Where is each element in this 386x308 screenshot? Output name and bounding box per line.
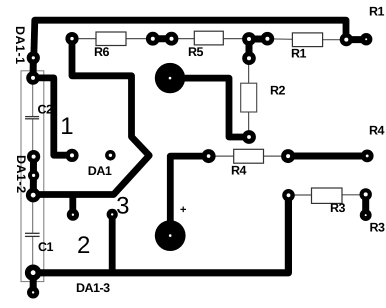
wire pin pads junction bar <box>30 157 37 196</box>
svg-text:DA1-1: DA1-1 <box>13 26 27 65</box>
wire pads junction bar <box>346 36 366 43</box>
pad P19 <box>27 286 39 298</box>
svg-text:R1: R1 <box>369 5 385 19</box>
pad P23 <box>202 149 216 163</box>
wire pad to R6 <box>72 38 96 40</box>
wire capacitor lead C1 bottom <box>32 237 34 273</box>
resistor R1 <box>292 33 322 47</box>
pad P21 <box>360 188 372 200</box>
pad P13 <box>28 170 39 181</box>
wire bottom ground bus <box>33 195 288 272</box>
pad P18 <box>25 265 41 281</box>
svg-text:C1: C1 <box>38 240 54 254</box>
pad P9 <box>27 51 40 64</box>
wire from pin 2 down to pad <box>33 78 72 155</box>
svg-text:DA1-3: DA1-3 <box>76 281 110 295</box>
wire pad junction bar <box>30 58 37 78</box>
pad P14 <box>26 188 41 203</box>
capacitor electrolytic big disc bottom <box>155 220 186 251</box>
pad P15 <box>67 209 79 221</box>
wire electrolytic to R2 pad <box>170 78 249 137</box>
wire chevron trace from pad to output <box>33 45 149 195</box>
pad P25 <box>361 150 374 163</box>
pad P4 <box>242 32 256 46</box>
svg-text:R3: R3 <box>370 221 386 235</box>
resistor R4 <box>234 149 264 163</box>
wire pads junction bar vertical <box>246 39 253 58</box>
pad P20 <box>282 189 295 202</box>
pad P8 <box>360 33 372 45</box>
resistor R6 <box>96 32 126 46</box>
resistor R3 <box>312 188 343 203</box>
wire pad to R1 <box>267 38 292 41</box>
wire capacitor lead C2 bottom to C1 <box>32 120 34 233</box>
wire pad to R5 <box>172 38 195 40</box>
wire pad down to ground bus <box>109 214 116 273</box>
svg-text:R4: R4 <box>369 124 385 138</box>
wire R4 to output long bar <box>288 153 367 160</box>
capacitor C2 <box>25 117 39 119</box>
pad P12 <box>27 150 40 163</box>
wire pads junction bar <box>153 35 172 42</box>
svg-text:3: 3 <box>116 192 129 219</box>
resistor R2 <box>241 83 257 112</box>
wire capacitor lead C2 top <box>32 78 34 116</box>
wire electrolytic to R4 pad <box>170 156 208 235</box>
pad P10 <box>26 71 40 85</box>
pad P17 <box>107 209 118 220</box>
svg-text:R3: R3 <box>330 201 346 215</box>
pad P1 <box>65 32 78 45</box>
wire R3 pads junction bar <box>362 195 369 216</box>
wire pad to R3 <box>289 194 312 196</box>
svg-text:C2: C2 <box>38 103 54 117</box>
pad P22 <box>360 209 372 221</box>
wire R1 to pad <box>323 39 347 41</box>
pad P2 <box>146 32 160 46</box>
op-amp DA1 package outline <box>21 71 44 282</box>
pad P7 <box>340 33 353 46</box>
wire pad to R2 <box>248 58 250 83</box>
wire R5 to pad <box>223 38 249 40</box>
svg-text:2: 2 <box>77 232 90 259</box>
svg-text:R4: R4 <box>231 164 247 178</box>
resistor R5 <box>194 31 223 45</box>
svg-text:DA1: DA1 <box>88 164 112 178</box>
wire R2 to pad <box>248 112 250 137</box>
pad P24 <box>281 149 295 163</box>
capacitor C1 <box>25 233 40 236</box>
wire pad to R4 <box>209 155 234 157</box>
svg-text:1: 1 <box>60 113 73 140</box>
pad P5 <box>261 32 275 46</box>
pad P6 <box>242 51 256 65</box>
pad P16 <box>105 150 116 161</box>
wire R3 to pad <box>342 194 366 196</box>
wire stub to pad <box>69 195 76 215</box>
pad P11 <box>65 149 78 162</box>
wire R4 to pad <box>264 155 289 157</box>
wire R6 to pad <box>126 38 153 40</box>
svg-text:R1: R1 <box>291 47 307 61</box>
transistor pad big disc top <box>155 63 185 93</box>
svg-text:+: + <box>180 204 186 216</box>
svg-text:R6: R6 <box>94 45 110 59</box>
wire pads junction bar horizontal <box>249 36 267 43</box>
svg-text:DA1-2: DA1-2 <box>14 155 28 194</box>
svg-text:R5: R5 <box>188 45 204 59</box>
pad P3 <box>165 32 179 46</box>
wire pad junction bar <box>30 273 37 293</box>
wire top bus trace <box>34 20 346 57</box>
svg-text:R2: R2 <box>270 84 286 98</box>
pad P26 <box>242 130 256 144</box>
